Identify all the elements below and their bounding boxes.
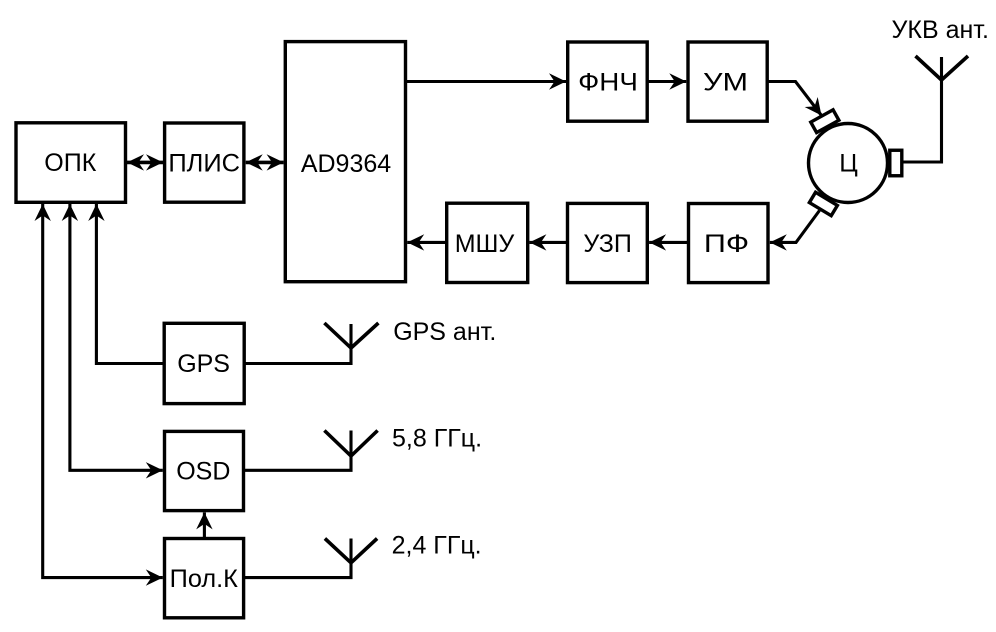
block UM (УМ power amplifier) (688, 42, 767, 121)
svg-text:МШУ: МШУ (455, 230, 515, 258)
wire AD9364 to FNCH (406, 80, 567, 83)
svg-text:УЗП: УЗП (583, 230, 631, 258)
wire OPK-PolK bidirectional (43, 204, 163, 578)
wire UM to circulator port 1 (767, 82, 821, 116)
antenna 2.4GHz (V prongs) (325, 539, 377, 563)
wire FNCH to UM (647, 80, 686, 83)
svg-text:ОПК: ОПК (44, 149, 96, 177)
block PF (ПФ band-pass filter) (689, 204, 769, 283)
wire PF to UZP (649, 241, 688, 244)
block UZP (УЗП) (568, 203, 648, 282)
wire UZP to MSHU (529, 241, 567, 244)
svg-text:GPS: GPS (177, 350, 230, 378)
wire circulator port 2 to UKV antenna (902, 57, 942, 162)
block GPS (164, 323, 244, 403)
svg-text:УКВ ант.: УКВ ант. (892, 16, 989, 44)
svg-text:ФНЧ: ФНЧ (578, 69, 638, 97)
wire GPS to OPK (96, 204, 164, 364)
circulator port 1 (top-left) (811, 110, 839, 133)
circulator port 2 (right) (890, 150, 902, 176)
antenna GPS (V prongs) (324, 323, 378, 348)
block AD9364 (285, 42, 405, 282)
svg-text:OSD: OSD (176, 458, 230, 486)
wire GPS to GPS antenna (244, 324, 351, 364)
antenna 5.8GHz (V prongs) (324, 431, 377, 457)
block OPK (ОПК) (16, 123, 126, 203)
svg-text:Ц: Ц (839, 150, 858, 178)
circulator C (Ц) circle (809, 124, 888, 203)
block PolK (Пол.К) (165, 539, 244, 618)
svg-text:ПЛИС: ПЛИС (168, 150, 240, 178)
block OSD (165, 431, 244, 510)
svg-text:Пол.К: Пол.К (170, 565, 239, 593)
wire OPK-OSD bidirectional (70, 204, 163, 470)
block FNCH (ФНЧ low-pass filter) (568, 42, 648, 121)
antenna UKV (V prongs) (916, 56, 969, 80)
svg-text:5,8 ГГц.: 5,8 ГГц. (392, 425, 482, 453)
wire circulator port 3 to PF (770, 211, 820, 243)
wire MSHU to AD9364 (407, 241, 447, 244)
block MSHU (МШУ LNA) (447, 203, 528, 282)
circulator port 3 (bottom-left) (809, 192, 837, 215)
svg-text:ПФ: ПФ (704, 230, 749, 258)
wire PolK to OSD (203, 512, 206, 538)
wire double-arrow PLIS-AD9364 (246, 161, 284, 165)
svg-text:AD9364: AD9364 (301, 150, 391, 178)
wire PolK to 2.4GHz antenna (244, 539, 351, 578)
svg-text:УМ: УМ (703, 69, 748, 97)
wire double-arrow OPK-PLIS (127, 161, 163, 165)
wire OSD to 5.8GHz antenna (244, 431, 352, 471)
svg-text:2,4 ГГц.: 2,4 ГГц. (392, 532, 482, 560)
svg-text:GPS ант.: GPS ант. (393, 318, 496, 346)
block PLIS (ПЛИС) (165, 123, 244, 202)
